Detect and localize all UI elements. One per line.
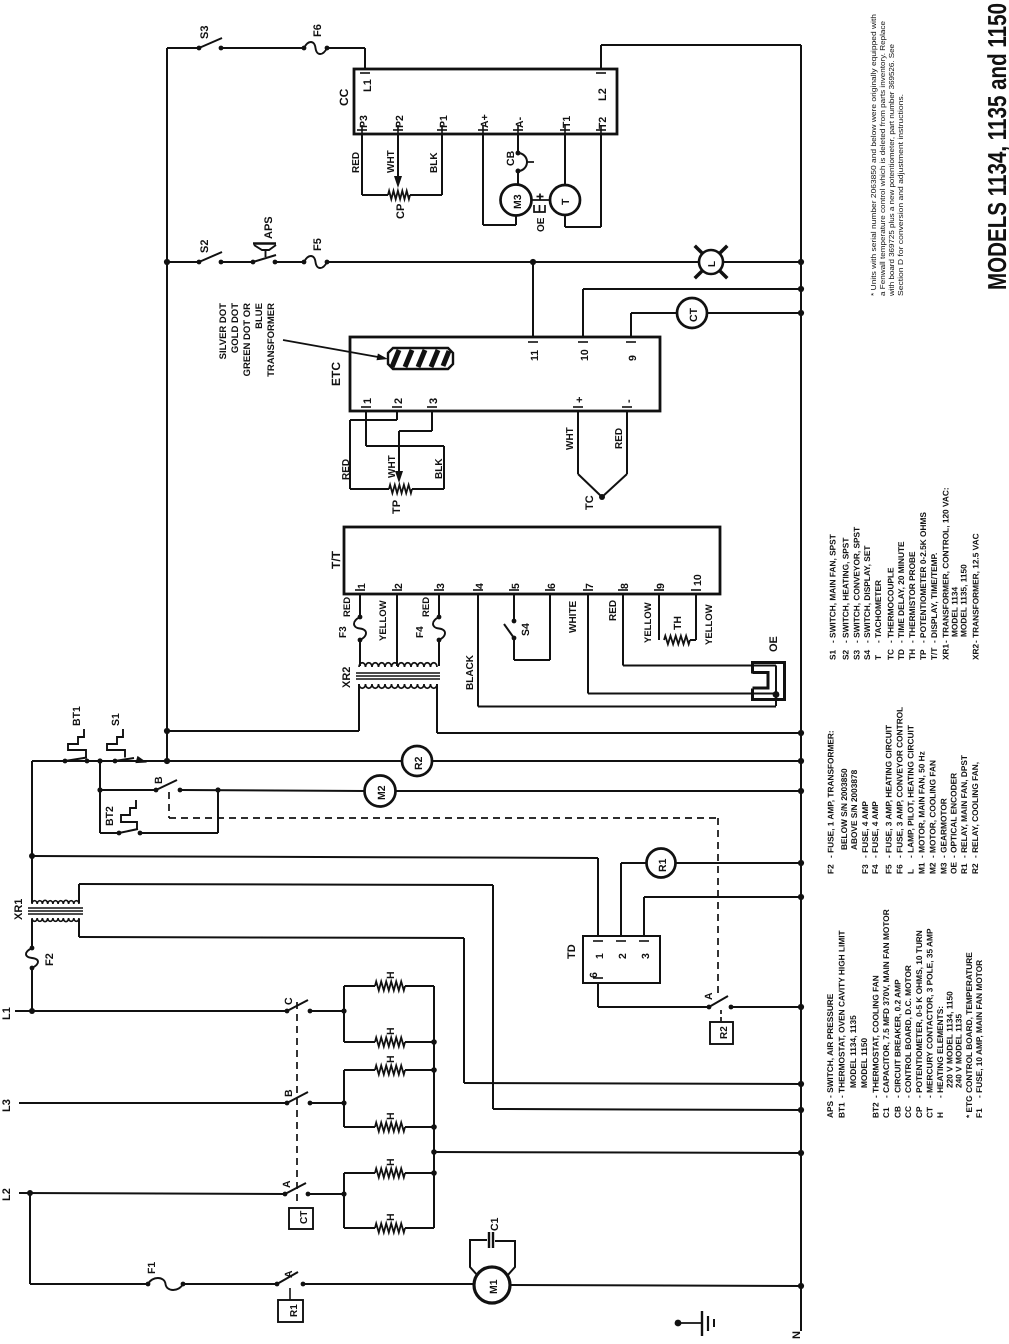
svg-text:- POTENTIOMETER 0-2.5K OHMS: - POTENTIOMETER 0-2.5K OHMS xyxy=(918,512,928,643)
svg-text:TP: TP xyxy=(918,649,928,660)
svg-text:R1: R1 xyxy=(289,1304,300,1317)
svg-text:- FUSE, 1 AMP, TRANSFORMER:: - FUSE, 1 AMP, TRANSFORMER: xyxy=(826,730,836,858)
svg-text:H: H xyxy=(385,971,397,979)
svg-text:- LAMP, PILOT, HEATING CIRCUIT: - LAMP, PILOT, HEATING CIRCUIT xyxy=(906,725,916,858)
svg-text:L1: L1 xyxy=(1,1007,13,1020)
svg-text:L2: L2 xyxy=(1,1188,13,1201)
svg-text:S1: S1 xyxy=(110,713,122,726)
svg-text:F4: F4 xyxy=(415,626,426,638)
svg-text:S3: S3 xyxy=(199,26,211,39)
svg-text:R2: R2 xyxy=(413,756,425,770)
svg-text:WHT: WHT xyxy=(565,427,576,450)
svg-text:S4: S4 xyxy=(862,649,872,660)
svg-text:CB: CB xyxy=(505,150,517,166)
svg-text:C: C xyxy=(283,997,295,1005)
svg-text:XR1: XR1 xyxy=(13,899,25,920)
svg-text:- SWITCH, CONVEYOR, SPST: - SWITCH, CONVEYOR, SPST xyxy=(852,527,862,643)
svg-text:H: H xyxy=(935,1112,945,1118)
svg-text:1: 1 xyxy=(594,953,606,959)
svg-text:S2: S2 xyxy=(199,240,211,253)
svg-text:YELLOW: YELLOW xyxy=(704,604,715,645)
svg-text:1: 1 xyxy=(356,583,368,589)
svg-text:CB: CB xyxy=(893,1106,903,1118)
svg-text:T: T xyxy=(873,655,883,660)
svg-text:H: H xyxy=(385,1112,397,1120)
svg-text:R2: R2 xyxy=(970,863,980,874)
svg-text:N: N xyxy=(791,1331,803,1339)
svg-text:M1: M1 xyxy=(488,1279,500,1294)
svg-text:- SWITCH, DISPLAY, SET: - SWITCH, DISPLAY, SET xyxy=(862,546,872,643)
svg-text:TP: TP xyxy=(391,500,403,514)
svg-text:F1: F1 xyxy=(146,1262,158,1274)
svg-text:- OPTICAL ENCODER: - OPTICAL ENCODER xyxy=(949,773,959,858)
svg-text:BLK: BLK xyxy=(429,152,440,173)
svg-text:CT: CT xyxy=(688,307,700,322)
svg-text:C1: C1 xyxy=(489,1217,501,1231)
svg-text:A: A xyxy=(703,992,715,1000)
svg-text:M2: M2 xyxy=(376,785,388,800)
svg-text:TRANSFORMER: TRANSFORMER xyxy=(266,303,277,377)
svg-text:A+: A+ xyxy=(479,114,491,128)
svg-text:- GEARMOTOR: - GEARMOTOR xyxy=(938,798,948,858)
svg-text:BT1: BT1 xyxy=(837,1102,847,1118)
svg-text:F2: F2 xyxy=(44,953,56,966)
svg-text:P2: P2 xyxy=(394,115,406,128)
svg-text:10: 10 xyxy=(692,574,704,586)
svg-text:BELOW S/N 2003850: BELOW S/N 2003850 xyxy=(839,768,849,850)
svg-text:L2: L2 xyxy=(597,88,609,101)
svg-text:RED: RED xyxy=(614,428,625,449)
svg-text:- TRANSFORMER, 12.5 VAC: - TRANSFORMER, 12.5 VAC xyxy=(971,533,981,643)
svg-text:- TIME DELAY, 20 MINUTE: - TIME DELAY, 20 MINUTE xyxy=(896,541,906,643)
svg-text:1: 1 xyxy=(362,398,374,404)
svg-text:- THERMOSTAT, COOLING FAN: - THERMOSTAT, COOLING FAN xyxy=(870,975,880,1098)
svg-text:L1: L1 xyxy=(362,79,374,92)
svg-text:10: 10 xyxy=(579,349,591,361)
svg-text:P3: P3 xyxy=(358,115,370,128)
svg-text:T/T: T/T xyxy=(929,648,939,660)
svg-text:S4: S4 xyxy=(520,623,532,636)
svg-text:F3: F3 xyxy=(860,864,870,874)
svg-text:RED: RED xyxy=(608,600,619,621)
svg-text:WHT: WHT xyxy=(386,150,397,173)
svg-text:11: 11 xyxy=(529,350,541,361)
svg-text:A: A xyxy=(283,1270,295,1278)
svg-text:XR2: XR2 xyxy=(971,643,981,660)
svg-text:-: - xyxy=(623,399,635,403)
svg-text:3: 3 xyxy=(428,398,440,404)
svg-text:MODEL 1135, 1150: MODEL 1135, 1150 xyxy=(959,564,969,637)
svg-text:A-: A- xyxy=(514,116,526,128)
svg-text:F1: F1 xyxy=(974,1108,984,1118)
svg-text:MODELS 1134, 1135 and 1150: MODELS 1134, 1135 and 1150 xyxy=(982,3,1009,290)
svg-text:TC: TC xyxy=(584,495,596,510)
svg-text:9: 9 xyxy=(655,583,667,589)
svg-text:B: B xyxy=(283,1089,295,1097)
svg-text:TD: TD xyxy=(896,649,906,660)
svg-text:TD: TD xyxy=(566,944,578,959)
svg-text:- RELAY, MAIN FAN, DPST: - RELAY, MAIN FAN, DPST xyxy=(959,755,969,858)
svg-text:WHITE: WHITE xyxy=(568,600,579,633)
svg-text:BT2: BT2 xyxy=(104,806,116,826)
svg-text:M2: M2 xyxy=(927,862,937,874)
svg-text:L3: L3 xyxy=(1,1099,13,1112)
svg-text:2: 2 xyxy=(617,953,629,959)
svg-text:OE: OE xyxy=(536,217,547,232)
svg-text:F4: F4 xyxy=(870,864,880,874)
svg-text:TH: TH xyxy=(907,649,917,660)
svg-text:S2: S2 xyxy=(840,649,850,660)
svg-text:6: 6 xyxy=(588,972,600,978)
svg-text:- RELAY, COOLING FAN,: - RELAY, COOLING FAN, xyxy=(970,762,980,858)
svg-text:MODEL 1134, 1135: MODEL 1134, 1135 xyxy=(848,1015,858,1088)
svg-text:B: B xyxy=(153,776,165,784)
svg-text:4: 4 xyxy=(474,583,486,589)
svg-text:CC: CC xyxy=(337,88,351,106)
svg-text:- CONTROL BOARD, TEMPERATURE: - CONTROL BOARD, TEMPERATURE xyxy=(964,952,974,1098)
svg-text:2: 2 xyxy=(393,583,405,589)
svg-text:H: H xyxy=(385,1055,397,1063)
svg-text:C1: C1 xyxy=(881,1107,891,1118)
svg-text:ABOVE S/N 2003878: ABOVE S/N 2003878 xyxy=(849,769,859,850)
svg-text:YELLOW: YELLOW xyxy=(378,600,389,641)
svg-text:APS: APS xyxy=(825,1100,835,1118)
svg-text:RED: RED xyxy=(421,597,432,617)
svg-text:RED: RED xyxy=(342,597,353,617)
svg-text:BT1: BT1 xyxy=(71,706,83,726)
svg-text:M3: M3 xyxy=(512,194,524,209)
svg-text:- SWITCH, MAIN FAN, SPST: - SWITCH, MAIN FAN, SPST xyxy=(828,534,838,643)
svg-text:- HEATING ELEMENTS:: - HEATING ELEMENTS: xyxy=(935,1006,945,1098)
svg-text:TC: TC xyxy=(886,649,896,660)
svg-text:F2: F2 xyxy=(826,864,836,874)
svg-text:3: 3 xyxy=(640,953,652,959)
svg-text:- MERCURY CONTACTOR, 3 POLE, 3: - MERCURY CONTACTOR, 3 POLE, 35 AMP xyxy=(925,928,935,1098)
svg-text:BLACK: BLACK xyxy=(465,654,476,690)
svg-text:- THERMOSTAT, OVEN CAVITY HIGH: - THERMOSTAT, OVEN CAVITY HIGH LIMIT xyxy=(837,930,847,1098)
svg-text:- FUSE, 4 AMP: - FUSE, 4 AMP xyxy=(860,801,870,858)
svg-text:Section D for conversion and a: Section D for conversion and adjustment … xyxy=(896,94,905,296)
svg-text:7: 7 xyxy=(584,583,596,589)
svg-text:OE: OE xyxy=(949,862,959,874)
svg-text:H: H xyxy=(385,1027,397,1035)
svg-text:3: 3 xyxy=(435,583,447,589)
svg-text:S1: S1 xyxy=(828,649,838,660)
svg-text:- FUSE, 4 AMP: - FUSE, 4 AMP xyxy=(870,801,880,858)
svg-text:A: A xyxy=(281,1180,293,1188)
svg-text:- SWITCH, AIR PRESSURE: - SWITCH, AIR PRESSURE xyxy=(825,993,835,1098)
svg-text:5: 5 xyxy=(510,583,522,589)
svg-text:2: 2 xyxy=(393,398,405,404)
svg-text:WHT: WHT xyxy=(387,455,398,478)
svg-text:CP: CP xyxy=(395,204,407,219)
svg-text:OE: OE xyxy=(768,636,780,652)
svg-text:XR2: XR2 xyxy=(341,667,353,688)
svg-text:BLUE: BLUE xyxy=(254,303,265,329)
svg-text:H: H xyxy=(385,1213,397,1221)
svg-text:- POTENTIOMETER, 0-5 K OHMS, 1: - POTENTIOMETER, 0-5 K OHMS, 10 TURN xyxy=(914,930,924,1098)
svg-text:RED: RED xyxy=(351,152,362,173)
svg-text:GREEN DOT OR: GREEN DOT OR xyxy=(242,303,253,377)
svg-text:- FUSE, 10 AMP, MAIN FAN MOTOR: - FUSE, 10 AMP, MAIN FAN MOTOR xyxy=(974,960,984,1098)
svg-text:CT: CT xyxy=(299,1211,310,1224)
svg-text:T/T: T/T xyxy=(329,550,343,569)
svg-text:a Fenwall temperature control: a Fenwall temperature control which is d… xyxy=(878,21,887,296)
svg-text:M1: M1 xyxy=(917,862,927,874)
svg-text:+: + xyxy=(574,397,586,403)
svg-text:- MOTOR, COOLING FAN: - MOTOR, COOLING FAN xyxy=(927,760,937,858)
svg-text:R1: R1 xyxy=(959,863,969,874)
svg-text:CP: CP xyxy=(914,1106,924,1118)
svg-text:CT: CT xyxy=(925,1107,935,1118)
svg-text:MODEL 1150: MODEL 1150 xyxy=(859,1038,869,1088)
svg-text:CC: CC xyxy=(903,1106,913,1118)
svg-text:T: T xyxy=(560,198,572,205)
svg-text:F5: F5 xyxy=(312,238,324,251)
svg-text:- SWITCH, HEATING, SPST: - SWITCH, HEATING, SPST xyxy=(840,538,850,643)
svg-text:- THERMISTOR PROBE: - THERMISTOR PROBE xyxy=(907,551,917,643)
svg-text:APS: APS xyxy=(263,216,275,239)
svg-text:L: L xyxy=(906,869,916,874)
svg-text:F3: F3 xyxy=(338,626,349,638)
svg-text:RED: RED xyxy=(341,459,352,480)
svg-text:R1: R1 xyxy=(657,858,669,872)
svg-text:SILVER DOT: SILVER DOT xyxy=(218,303,229,359)
svg-text:* Units with serial number 206: * Units with serial number 2063850 and b… xyxy=(869,14,878,296)
svg-text:R2: R2 xyxy=(719,1026,730,1039)
svg-text:ETC: ETC xyxy=(329,362,343,386)
svg-text:- MOTOR, MAIN FAN, 50 Hz: - MOTOR, MAIN FAN, 50 Hz xyxy=(917,751,927,858)
svg-text:H: H xyxy=(385,1158,397,1166)
svg-text:- DISPLAY, TIME/TEMP.: - DISPLAY, TIME/TEMP. xyxy=(929,553,939,643)
svg-text:GOLD DOT: GOLD DOT xyxy=(230,303,241,353)
svg-text:with board 369725 plus a new p: with board 369725 plus a new potentiomet… xyxy=(887,44,896,297)
svg-text:BT2: BT2 xyxy=(870,1102,880,1118)
svg-text:- CAPACITOR, 7.5 MFD 370V, MAI: - CAPACITOR, 7.5 MFD 370V, MAIN FAN MOTO… xyxy=(881,909,891,1098)
svg-text:XR1: XR1 xyxy=(940,643,950,660)
svg-text:P1: P1 xyxy=(438,115,450,128)
svg-text:* ETC: * ETC xyxy=(964,1096,974,1118)
svg-text:- CIRCUIT BREAKER, 0.2 AMP: - CIRCUIT BREAKER, 0.2 AMP xyxy=(893,979,903,1098)
svg-text:- THERMOCOUPLE: - THERMOCOUPLE xyxy=(886,567,896,643)
svg-text:F6: F6 xyxy=(312,24,324,37)
svg-text:- CONTROL BOARD, D.C. MOTOR: - CONTROL BOARD, D.C. MOTOR xyxy=(903,965,913,1098)
svg-text:- FUSE, 3 AMP, HEATING CIRCUIT: - FUSE, 3 AMP, HEATING CIRCUIT xyxy=(884,725,894,858)
svg-text:- FUSE, 3 AMP, CONVEYOR CONTRO: - FUSE, 3 AMP, CONVEYOR CONTROL xyxy=(895,707,905,858)
svg-text:M3: M3 xyxy=(938,862,948,874)
svg-text:BLK: BLK xyxy=(434,458,445,479)
svg-text:S3: S3 xyxy=(852,649,862,660)
svg-text:L: L xyxy=(707,261,718,267)
svg-text:9: 9 xyxy=(627,355,639,361)
svg-text:T2: T2 xyxy=(597,117,609,129)
svg-text:6: 6 xyxy=(546,583,558,589)
svg-text:240 V MODEL 1135: 240 V MODEL 1135 xyxy=(954,1014,964,1088)
svg-text:- TACHOMETER: - TACHOMETER xyxy=(873,580,883,643)
svg-text:8: 8 xyxy=(619,583,631,589)
svg-text:YELLOW: YELLOW xyxy=(643,602,654,643)
svg-text:F5: F5 xyxy=(884,864,894,874)
svg-text:F6: F6 xyxy=(895,864,905,874)
svg-text:T1: T1 xyxy=(561,116,573,128)
svg-text:TH: TH xyxy=(672,616,684,630)
